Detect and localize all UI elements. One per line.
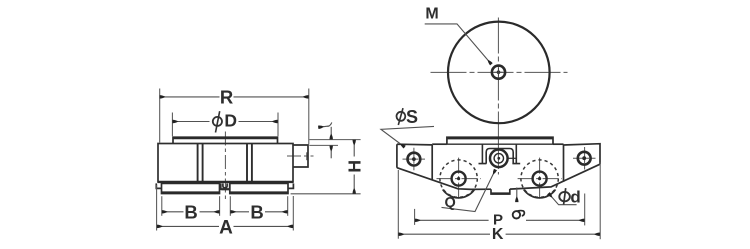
svg-text:B: B bbox=[250, 201, 263, 222]
svg-text:A: A bbox=[219, 218, 233, 239]
svg-text:d: d bbox=[570, 188, 580, 207]
svg-text:S: S bbox=[406, 107, 418, 127]
svg-text:R: R bbox=[220, 86, 233, 107]
svg-text:H: H bbox=[344, 160, 364, 173]
svg-text:K: K bbox=[492, 226, 504, 243]
svg-text:M: M bbox=[425, 6, 438, 23]
svg-text:B: B bbox=[184, 201, 197, 222]
svg-text:Q: Q bbox=[445, 195, 456, 211]
svg-text:D: D bbox=[224, 110, 237, 130]
